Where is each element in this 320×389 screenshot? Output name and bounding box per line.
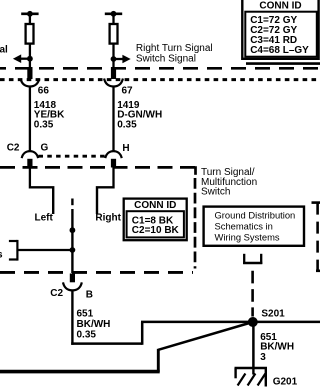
wire 1419 (112, 87, 114, 151)
svg-text:G201: G201 (273, 376, 298, 387)
node A left feed tee (21, 11, 38, 17)
wire dashed boundary top (0, 67, 320, 70)
svg-text:67: 67 (122, 85, 134, 96)
pin H male terminal (111, 159, 116, 168)
pin 66 male terminal (27, 67, 32, 79)
node branch junction (70, 247, 76, 253)
svg-text:G: G (41, 143, 49, 154)
wire dotted connector face top (0, 78, 320, 81)
wire left signal arrow (13, 54, 30, 63)
svg-text:0.35: 0.35 (117, 119, 137, 130)
wire diagonal to S201 (158, 322, 253, 350)
svg-text:BK/WH: BK/WH (260, 342, 294, 353)
node S201 splice (248, 317, 258, 327)
svg-text:Wiring Systems: Wiring Systems (215, 232, 280, 243)
svg-text:C2: C2 (50, 288, 63, 299)
wire bottom feeder (0, 370, 160, 374)
svg-text:66: 66 (38, 85, 50, 96)
wire jog horizontal (71, 342, 142, 345)
svg-text:BK/WH: BK/WH (77, 319, 111, 330)
node right arrow junction (111, 56, 117, 62)
pin 67 female connector (104, 79, 123, 87)
switch box top dashed border (0, 166, 197, 169)
resistor left lamp (26, 24, 34, 44)
node B right feed tee (105, 11, 122, 17)
wire branch to bracket (18, 249, 72, 251)
bracket stub connector (9, 240, 18, 261)
conn id table switch (124, 199, 187, 241)
svg-text:C2: C2 (7, 143, 20, 154)
svg-text:Left: Left (35, 212, 54, 223)
svg-text:0.35: 0.35 (34, 119, 54, 130)
node pole pivot (70, 227, 76, 233)
page border top foot (312, 201, 320, 204)
wire 651 from switch (71, 291, 73, 345)
svg-text:Schematics in: Schematics in (215, 221, 273, 232)
svg-text:Right: Right (95, 212, 121, 223)
svg-text:al: al (0, 45, 8, 56)
svg-text:CONN ID: CONN ID (134, 200, 176, 211)
switch box right dashed border (194, 178, 197, 269)
resistor right lamp (110, 24, 118, 44)
switch box bottom dashed border (0, 271, 193, 274)
wire main to S201 (141, 321, 320, 324)
wire (112, 14, 114, 25)
svg-text:Switch: Switch (201, 187, 230, 198)
node left arrow junction (27, 56, 33, 62)
switch pole mechanical dash (71, 199, 73, 206)
svg-text:B: B (86, 289, 93, 300)
svg-text:C4=68 L–GY: C4=68 L–GY (250, 45, 309, 56)
pin 66 female connector (21, 79, 40, 87)
pin B male terminal (70, 274, 75, 283)
wire S201 to ground (252, 322, 255, 368)
wire dotted connector face mid (39, 155, 106, 158)
bracket below reference box (243, 254, 262, 264)
wire (29, 14, 31, 25)
page right dashed border (316, 203, 319, 271)
svg-text:3: 3 (260, 352, 266, 363)
svg-text:s: s (0, 250, 3, 261)
wire (29, 44, 31, 68)
page border bottom foot (316, 269, 320, 272)
svg-text:0.35: 0.35 (77, 329, 97, 340)
ground distribution reference box (204, 207, 304, 246)
pin G female connector (22, 151, 38, 158)
pin 67 male terminal (111, 67, 116, 79)
switch box corner (194, 166, 197, 175)
wire (112, 44, 114, 68)
wire left contact (30, 166, 53, 214)
switch pole wire (71, 209, 73, 273)
wire 1418 (29, 87, 31, 151)
wire solid boundary right (246, 62, 320, 65)
conn id table top right (242, 0, 318, 59)
wire right contact (97, 166, 114, 214)
pin H female connector (105, 151, 121, 158)
wire jog vertical (141, 322, 144, 345)
wire riser (157, 349, 160, 372)
svg-text:Switch Signal: Switch Signal (136, 53, 196, 64)
pin B female connector (63, 282, 82, 290)
svg-text:CONN ID: CONN ID (259, 1, 301, 12)
svg-text:S201: S201 (261, 309, 285, 320)
svg-text:Ground Distribution: Ground Distribution (215, 210, 296, 221)
svg-text:H: H (122, 143, 129, 154)
wire dashed reference to S201 (251, 271, 254, 317)
wire right signal arrow (114, 55, 131, 64)
svg-text:C2=10 BK: C2=10 BK (132, 225, 180, 236)
ground G201 (235, 368, 268, 387)
pin G male terminal (27, 159, 32, 168)
